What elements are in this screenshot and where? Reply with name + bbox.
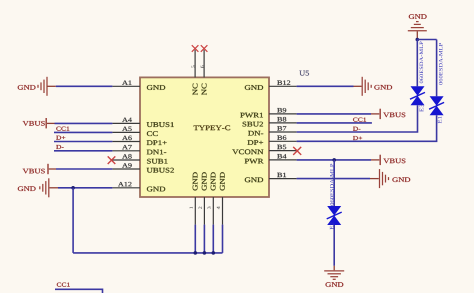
ground symbol + GND label (bottom, below E2) (333, 266, 335, 271)
designator U5 (299, 71, 309, 76)
wire A7 (D-) (54, 150, 112, 152)
pin B12 (GND) (269, 85, 297, 87)
value label 060ESDA-MLP (E2) (330, 164, 334, 206)
value label 060ESDA-MLP (E3) (420, 42, 424, 84)
wire CC1 bottom stub (55, 289, 103, 293)
pin 4 (GND, bottom) (222, 197, 224, 225)
IC comment label TYPEY-C (194, 125, 231, 130)
bottom ground bus wire (73, 252, 222, 254)
pin A8 (SUB1) (112, 159, 140, 161)
junction on A12 wire (71, 186, 75, 190)
TVS diode E1 (on net D+) (430, 96, 444, 106)
pin A5 (CC) (112, 131, 140, 133)
pin A9 (UBUS2) (112, 168, 140, 170)
pin B4 (PWR) (269, 159, 297, 161)
pin 1 (GND, bottom) (194, 197, 196, 225)
wire E2 down to GND (333, 225, 335, 266)
wire B1 to GND (297, 178, 370, 180)
net label D- (wire A7) (56, 145, 63, 149)
power port VBUS (net at pin B9) (371, 113, 379, 115)
wire A12 to GND (58, 187, 112, 189)
pin name NC (pin 5) (193, 84, 198, 95)
pin name NC (pin 6) (202, 84, 207, 95)
wire A9 to VBUS (56, 168, 112, 170)
net label CC1 (wire A5) (56, 127, 69, 131)
junction pin 2 / bus (203, 251, 207, 255)
wire from A12 junction down (72, 188, 74, 253)
net label CC1 (bottom stub) (57, 283, 70, 287)
wire B9 to VBUS (297, 113, 371, 115)
net label D+ (wire B6) (353, 136, 362, 140)
wire A1 to GND (56, 85, 113, 87)
pin 6 (NC, top) (203, 50, 205, 78)
pin B9 (PWR1) (269, 113, 297, 115)
wire pin 4 down to bus (222, 225, 224, 253)
wire B7 (D-) to diode E3 (297, 105, 418, 132)
junction top right (416, 38, 420, 42)
pin B7 (DN-) (269, 131, 297, 133)
wire pin 2 down to bus (203, 225, 205, 253)
wire B12 to GND (297, 85, 354, 87)
no-connect X on pin 6 (201, 45, 208, 52)
wire B4 junction down to diode E2 (333, 160, 335, 206)
pin B5 (VCONN) (269, 150, 297, 152)
no-connect X on pin B5 (293, 147, 301, 155)
ground symbol + GND label (net at pin B12) (354, 85, 362, 87)
wire B8 (CC1) (297, 122, 372, 124)
pin B8 (SBU2) (269, 122, 297, 124)
wire pin 3 down to bus (212, 225, 214, 253)
designator E3 (420, 105, 424, 112)
pin B6 (DP+) (269, 140, 297, 142)
wire A6 (D+) (54, 141, 112, 143)
designator E2 (330, 222, 334, 229)
pin 2 (GND, bottom) (203, 197, 205, 225)
no-connect X on pin 5 (192, 45, 199, 52)
junction on B4 wire (332, 158, 336, 162)
pin A4 (UBUS1) (112, 122, 140, 124)
wire down to diode E1 (436, 40, 438, 97)
pin 3 (GND, bottom) (212, 197, 214, 225)
wire down to diode E3 (416, 40, 418, 87)
power port VBUS (net at pin A9) (23, 169, 45, 174)
no-connect X on pin A8 (108, 156, 116, 164)
TVS diode E2 (on net PWR) (327, 206, 341, 216)
wire pin 1 down to bus (194, 225, 196, 253)
pin A7 (DN1-) (112, 150, 140, 152)
junction pin 3 / bus (212, 251, 216, 255)
power port VBUS (net at pin A4) (23, 121, 45, 126)
wire A4 to VBUS (55, 122, 113, 124)
pin A1 (GND) (112, 85, 140, 87)
wire B4 to VBUS (297, 159, 371, 161)
net label CC1 (wire B8) (353, 118, 366, 122)
ground symbol + GND label (net at pin A1) (18, 85, 36, 90)
pin B1 (GND) (269, 178, 297, 180)
designator E1 (438, 116, 442, 123)
TVS diode E3 (on net D-) (411, 86, 425, 96)
ground symbol + GND label (net at pin B1) (370, 178, 379, 180)
ground symbol + GND label (top right) (409, 14, 427, 19)
pin A12 (GND) (112, 187, 140, 189)
wire B6 (D+) to diode E1 (297, 115, 437, 141)
net label D+ (wire A6) (56, 136, 65, 140)
pin A6 (DP1+) (112, 141, 140, 143)
value label 060ESDA-MLP (E1) (439, 43, 443, 85)
net label D- (wire B7) (353, 127, 360, 131)
ground symbol + GND label (net at pin A12) (18, 186, 36, 191)
wire A5 (CC1) (54, 131, 112, 133)
wire junction to E1 branch (417, 39, 436, 41)
junction pin 1 / bus (194, 251, 198, 255)
power port VBUS (net at pin B4) (371, 159, 379, 161)
pin 5 (NC, top) (194, 50, 196, 78)
IC U5 body TYPEY-C (140, 77, 269, 197)
